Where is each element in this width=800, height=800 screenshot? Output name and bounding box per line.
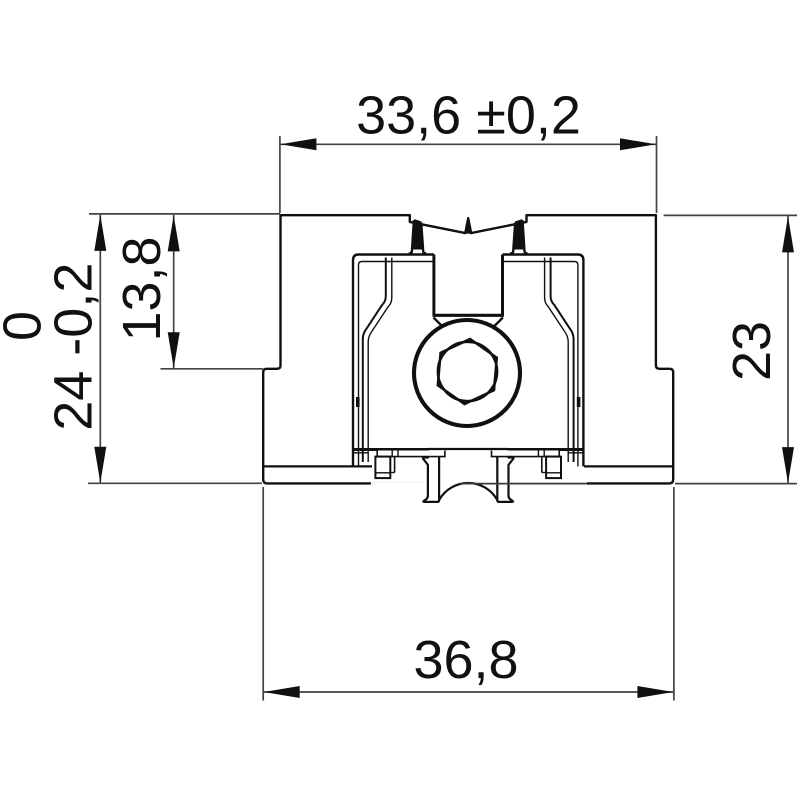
dim 36,8 extension right [673, 487, 675, 701]
hex corner wedges [438, 339, 497, 404]
dim 33,6 line [280, 143, 657, 145]
dim 33,6 arrows [280, 138, 316, 150]
dim 33,6 extension right [656, 136, 658, 213]
dim 24 extension bottom [88, 482, 262, 484]
insert right S-curve outer [551, 258, 574, 463]
left pin [409, 220, 427, 253]
insert shoulder inner line right [503, 262, 578, 467]
central tongue [423, 449, 514, 502]
insert left S-curve inner [368, 258, 392, 463]
dim 24 extension top [89, 213, 280, 215]
dim 13,8 line [173, 215, 175, 368]
screw head outer circle [414, 320, 520, 426]
housing flange top edge right [584, 465, 673, 467]
dim 36,8 arrows [264, 686, 300, 698]
left wall parting mark [356, 397, 360, 407]
svg-text:13,8: 13,8 [112, 236, 172, 341]
right rail dividers [543, 451, 545, 457]
right wall parting mark [577, 397, 581, 407]
U channel left wall [432, 255, 435, 315]
socket chamfer circle [438, 342, 497, 401]
svg-text:24 -0,2: 24 -0,2 [44, 263, 104, 431]
housing outer profile [263, 215, 673, 483]
tongue leg inner edges [438, 456, 440, 500]
insert shoulder inner line left [359, 262, 434, 467]
housing flange top edge left [263, 465, 372, 467]
dim 13,8 extension bottom [161, 368, 264, 370]
svg-text:36,8: 36,8 [413, 630, 518, 690]
right pin [510, 220, 528, 253]
insert left wall foot lines [353, 452, 368, 454]
insert left shoulder and wall [353, 255, 434, 467]
dim 13,8 arrows [168, 215, 180, 251]
U channel left fillet [434, 318, 443, 327]
right pin fill [513, 220, 524, 249]
dim 24 line [99, 214, 101, 482]
insert left S-curve outer [363, 258, 386, 463]
dim 36,8 line [263, 691, 674, 693]
insert right shoulder and wall [503, 255, 584, 467]
insert right S-curve inner [545, 258, 569, 463]
flange bottom notch erase [371, 482, 587, 485]
insert bottom edge [353, 448, 583, 451]
svg-text:23: 23 [722, 321, 782, 381]
dim 23 extension top [664, 214, 797, 216]
left pin fill [412, 220, 423, 249]
flange bottom hidden edge right [459, 483, 587, 485]
left rail dividers [391, 451, 393, 457]
hex socket [438, 339, 497, 404]
right rail strip [492, 451, 560, 457]
dim 36,8 extension left [262, 487, 264, 701]
dim 23 line [787, 216, 789, 483]
U channel bottom [433, 314, 504, 317]
U channel right fillet [494, 318, 503, 327]
dim 24 arrows [94, 215, 106, 251]
left foot block [375, 457, 390, 479]
left rail strip [377, 451, 445, 457]
svg-text:0: 0 [0, 311, 53, 341]
dim 23 arrows [782, 216, 794, 252]
U channel right wall [501, 255, 504, 315]
insert right wall foot lines [568, 452, 583, 454]
dim 23 extension bottom [675, 483, 797, 485]
V-notch center spike [465, 218, 471, 233]
svg-text:33,6 ±0,2: 33,6 ±0,2 [356, 86, 581, 146]
right foot block [546, 457, 561, 479]
dim 33,6 extension left [279, 136, 281, 213]
